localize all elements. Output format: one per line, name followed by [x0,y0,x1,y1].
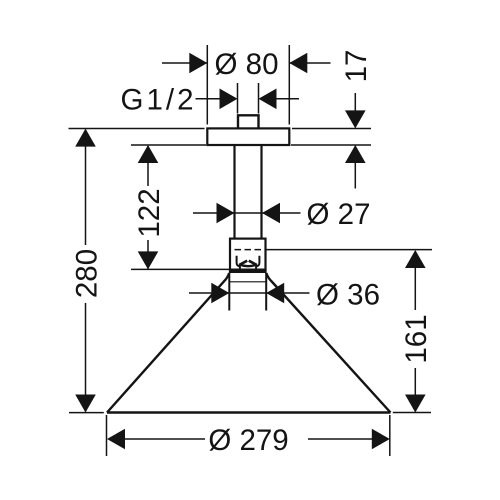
svg-text:17: 17 [340,50,373,83]
svg-text:Ø 36: Ø 36 [316,278,380,311]
svg-text:G1/2: G1/2 [121,84,197,117]
svg-text:280: 280 [70,249,103,298]
svg-text:Ø 279: Ø 279 [208,424,288,457]
svg-text:Ø 27: Ø 27 [307,198,371,231]
svg-text:122: 122 [133,188,166,237]
svg-text:161: 161 [400,314,433,363]
svg-text:Ø 80: Ø 80 [215,48,279,81]
